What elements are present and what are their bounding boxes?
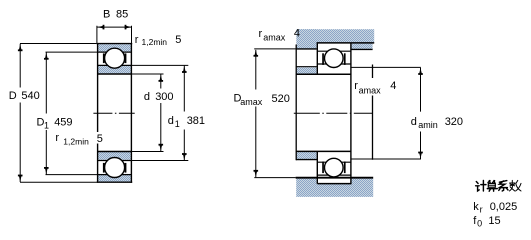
- svg-text:r: r: [259, 28, 263, 40]
- svg-text:d: d: [168, 115, 174, 127]
- svg-text:4: 4: [294, 28, 300, 40]
- svg-text:300: 300: [155, 91, 173, 103]
- svg-text:459: 459: [54, 116, 72, 128]
- svg-text:5: 5: [97, 133, 103, 145]
- svg-text:d: d: [144, 91, 150, 103]
- svg-text:r: r: [354, 80, 358, 92]
- svg-text:amax: amax: [359, 86, 382, 96]
- svg-text:d: d: [411, 116, 417, 128]
- svg-text:4: 4: [390, 80, 396, 92]
- svg-text:320: 320: [445, 116, 463, 128]
- svg-text:k: k: [473, 201, 479, 213]
- svg-text:1: 1: [44, 120, 49, 130]
- svg-text:r: r: [135, 34, 139, 46]
- svg-text:amin: amin: [418, 120, 438, 130]
- svg-text:1,2min: 1,2min: [142, 37, 168, 47]
- svg-text:540: 540: [21, 90, 39, 102]
- svg-text:5: 5: [175, 34, 181, 46]
- svg-text:0: 0: [477, 219, 482, 229]
- svg-text:amax: amax: [263, 32, 286, 42]
- svg-text:520: 520: [272, 93, 290, 105]
- svg-text:1: 1: [175, 119, 180, 129]
- svg-text:r: r: [480, 205, 483, 215]
- svg-text:381: 381: [187, 115, 205, 127]
- svg-text:1,2min: 1,2min: [63, 137, 89, 147]
- svg-text:D: D: [9, 90, 17, 102]
- svg-text:0,025: 0,025: [490, 201, 518, 213]
- svg-text:85: 85: [116, 9, 128, 21]
- svg-text:B: B: [103, 9, 110, 21]
- svg-text:r: r: [55, 132, 59, 144]
- svg-text:amax: amax: [240, 97, 263, 107]
- svg-text:15: 15: [488, 215, 500, 227]
